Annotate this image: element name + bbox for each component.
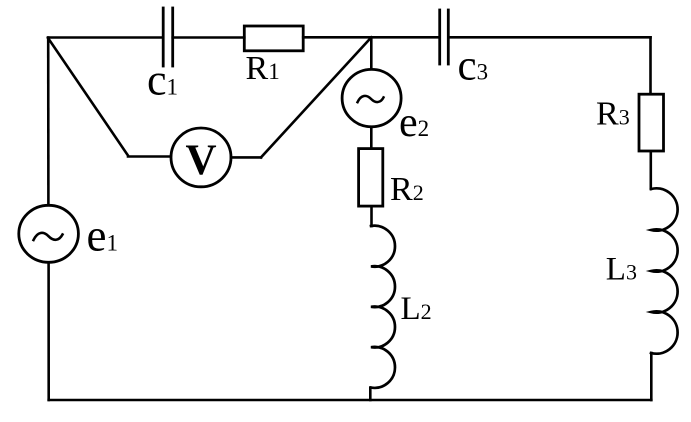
wire e1 to bottom-left corner [47,263,50,400]
wire diagonal from top-left corner to voltmeter [48,38,171,157]
source e2 [342,69,401,126]
wire voltmeter to diagonal [231,156,261,159]
tilde of e1 [34,233,63,240]
resistor R1 [244,26,303,51]
wire C3 to top-right corner [448,36,650,39]
capacitor C1 [163,8,173,66]
resistor R3 [639,94,664,151]
wire R1 to node and on to capacitor C3 [303,36,440,39]
inductor L3 [651,188,678,353]
wire L3 to bottom-right corner [650,353,653,400]
svg-text:V: V [185,137,216,184]
resistor R2 [359,149,383,207]
wire e2 to resistor R2 [370,127,373,147]
wire diagonal from voltmeter up to node [261,37,371,157]
voltmeter U1 [171,128,231,187]
inductor L2 [371,226,395,388]
wire top-left corner to capacitor C1 [48,36,163,39]
wire bottom (right corner to left corner) [49,399,652,402]
wire top-left corner down to source e1 [47,38,50,204]
wire L2 to bottom wire [369,388,372,400]
wire R2 to inductor L2 [370,208,373,227]
source e1 [19,205,79,262]
capacitor C3 [440,10,449,64]
tilde of e2 [358,96,384,102]
wire R3 to inductor L3 [649,152,652,189]
wire C1 to resistor R1 [173,36,245,39]
node at top of e2 branch [370,37,373,69]
wire top-right corner down to R3 [649,37,652,93]
